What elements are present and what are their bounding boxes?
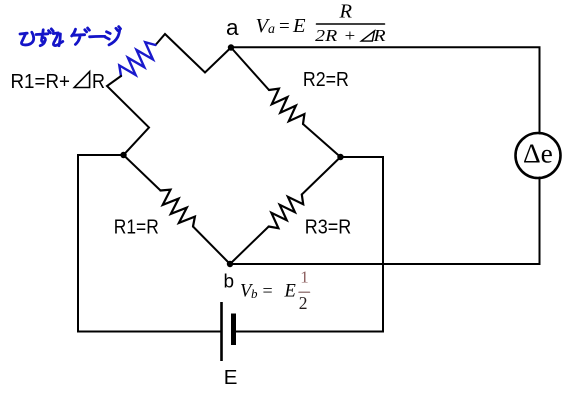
node right junction dot [337, 154, 343, 160]
formula Va fraction bar [317, 23, 385, 25]
svg-text:b: b [224, 272, 235, 293]
resistor R1 zigzag [161, 190, 195, 227]
battery long plate [220, 302, 223, 361]
wire: meter bottom lead down then left to node b [230, 178, 540, 265]
wire: top rail from node a to meter [231, 47, 540, 133]
wire: R2 lead to right node [303, 124, 341, 157]
dakuten of zu [49, 29, 54, 33]
svg-text:2R: 2R [315, 26, 338, 45]
formula Vb fraction bar (maroon) [299, 291, 310, 293]
wire: upper-left arm from node a to strain gauge [156, 34, 232, 73]
wire: gauge lower lead to left node [107, 76, 149, 155]
svg-text:R: R [339, 1, 353, 23]
svg-text:R3=R: R3=R [305, 217, 352, 239]
glyph ji [106, 30, 120, 45]
wire: R1 lead to node b [193, 227, 230, 265]
battery short plate [231, 314, 236, 346]
glyph ge [72, 29, 85, 44]
svg-text:=: = [263, 281, 273, 301]
glyph long bar [90, 35, 105, 38]
resistor R2 zigzag [269, 89, 304, 124]
svg-text:R2=R: R2=R [303, 69, 349, 91]
svg-text:Δe: Δe [523, 138, 553, 169]
svg-text:a: a [226, 15, 239, 40]
resistor R1=R+dR strain gauge zigzag (blue) [119, 42, 155, 76]
delta triangle in Va denominator [361, 31, 374, 41]
node left junction dot [120, 152, 126, 158]
glyph hi [20, 32, 34, 45]
svg-text:2: 2 [299, 293, 308, 313]
node b junction dot [227, 261, 233, 267]
dakuten of ji [116, 27, 121, 31]
glyph mi [53, 33, 63, 46]
meter De circle [516, 133, 561, 178]
svg-text:R: R [92, 71, 105, 93]
resistor R3 zigzag [269, 195, 304, 229]
glyph zu [36, 30, 48, 46]
svg-text:a: a [268, 22, 275, 37]
svg-text:+: + [345, 26, 356, 45]
svg-text:R1=R+: R1=R+ [11, 71, 71, 93]
node a junction dot [228, 44, 234, 50]
svg-text:=: = [279, 16, 290, 37]
wire: battery positive to right rail up to right node [235, 157, 384, 332]
svg-text:1: 1 [300, 267, 309, 286]
svg-text:b: b [251, 286, 258, 301]
svg-text:E: E [284, 282, 296, 302]
svg-text:E: E [292, 15, 306, 37]
dakuten of ge [85, 28, 90, 32]
wire: left node to left rail down to battery [78, 155, 221, 332]
label: strain gauge (hizumi gauge) blue japanese text [20, 27, 121, 46]
svg-text:R: R [372, 26, 386, 45]
delta triangle in R1=R+dR [74, 72, 89, 88]
wire: R3 lead to node b [230, 227, 269, 265]
wire: lower-left arm lead from left node [124, 155, 161, 191]
svg-text:E: E [224, 366, 238, 389]
svg-text:R1=R: R1=R [114, 217, 159, 239]
wire: lower-right arm lead from right node [302, 157, 341, 195]
wire: upper-right arm lead from a [231, 48, 269, 91]
